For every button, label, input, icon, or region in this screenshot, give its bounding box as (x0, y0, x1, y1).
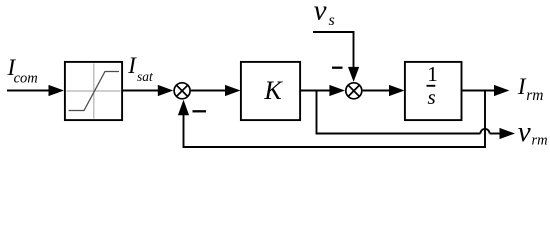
wire integrator to Irm output (462, 90, 497, 92)
saturation block U1 (65, 62, 122, 120)
summing junction 1 (174, 83, 190, 99)
minus sign at junction 2 (332, 67, 343, 69)
svg-text:K: K (263, 76, 283, 105)
svg-text:s: s (329, 12, 335, 29)
wire junction 1 to K block (191, 90, 227, 92)
arrowhead into summing junction 2 (329, 85, 345, 96)
wire feedback from Irm line down (184, 91, 486, 148)
svg-text:rm: rm (532, 133, 548, 149)
svg-text:sat: sat (137, 69, 154, 84)
arrowhead feedback into junction 1 (178, 100, 189, 116)
wire junction 2 to integrator (363, 90, 391, 92)
svg-text:I: I (127, 53, 137, 78)
svg-text:v: v (518, 116, 531, 148)
wire vs to junction 2 (313, 32, 354, 68)
arrowhead Irm output (494, 85, 510, 96)
arrowhead into saturation block (49, 85, 65, 96)
svg-text:s: s (428, 85, 436, 109)
wire K to summing junction 2 (301, 90, 332, 92)
wire input line (7, 90, 50, 92)
wire vrm branch from K output (317, 91, 481, 134)
integrator block 1/s (405, 62, 462, 120)
svg-text:com: com (14, 70, 38, 86)
arrowhead into integrator (389, 85, 405, 96)
arrowhead into K block (225, 85, 241, 96)
saturation axis vertical (93, 64, 95, 119)
saturation curve (69, 72, 120, 111)
arrowhead into summing junction 1 (158, 85, 174, 96)
saturation axis horizontal (67, 90, 121, 92)
minus sign at junction 1 (193, 110, 207, 112)
svg-text:1: 1 (427, 62, 438, 86)
gain block K (241, 62, 300, 120)
wire saturation to summing junction 1 (123, 90, 159, 92)
svg-text:v: v (314, 0, 327, 26)
wire hop over feedback line (480, 129, 489, 134)
arrowhead vrm output (500, 128, 516, 139)
wire hop to vrm arrow (490, 133, 501, 135)
svg-text:rm: rm (526, 87, 543, 104)
summing junction 2 (346, 83, 362, 99)
arrowhead vs into junction 2 (348, 67, 359, 82)
